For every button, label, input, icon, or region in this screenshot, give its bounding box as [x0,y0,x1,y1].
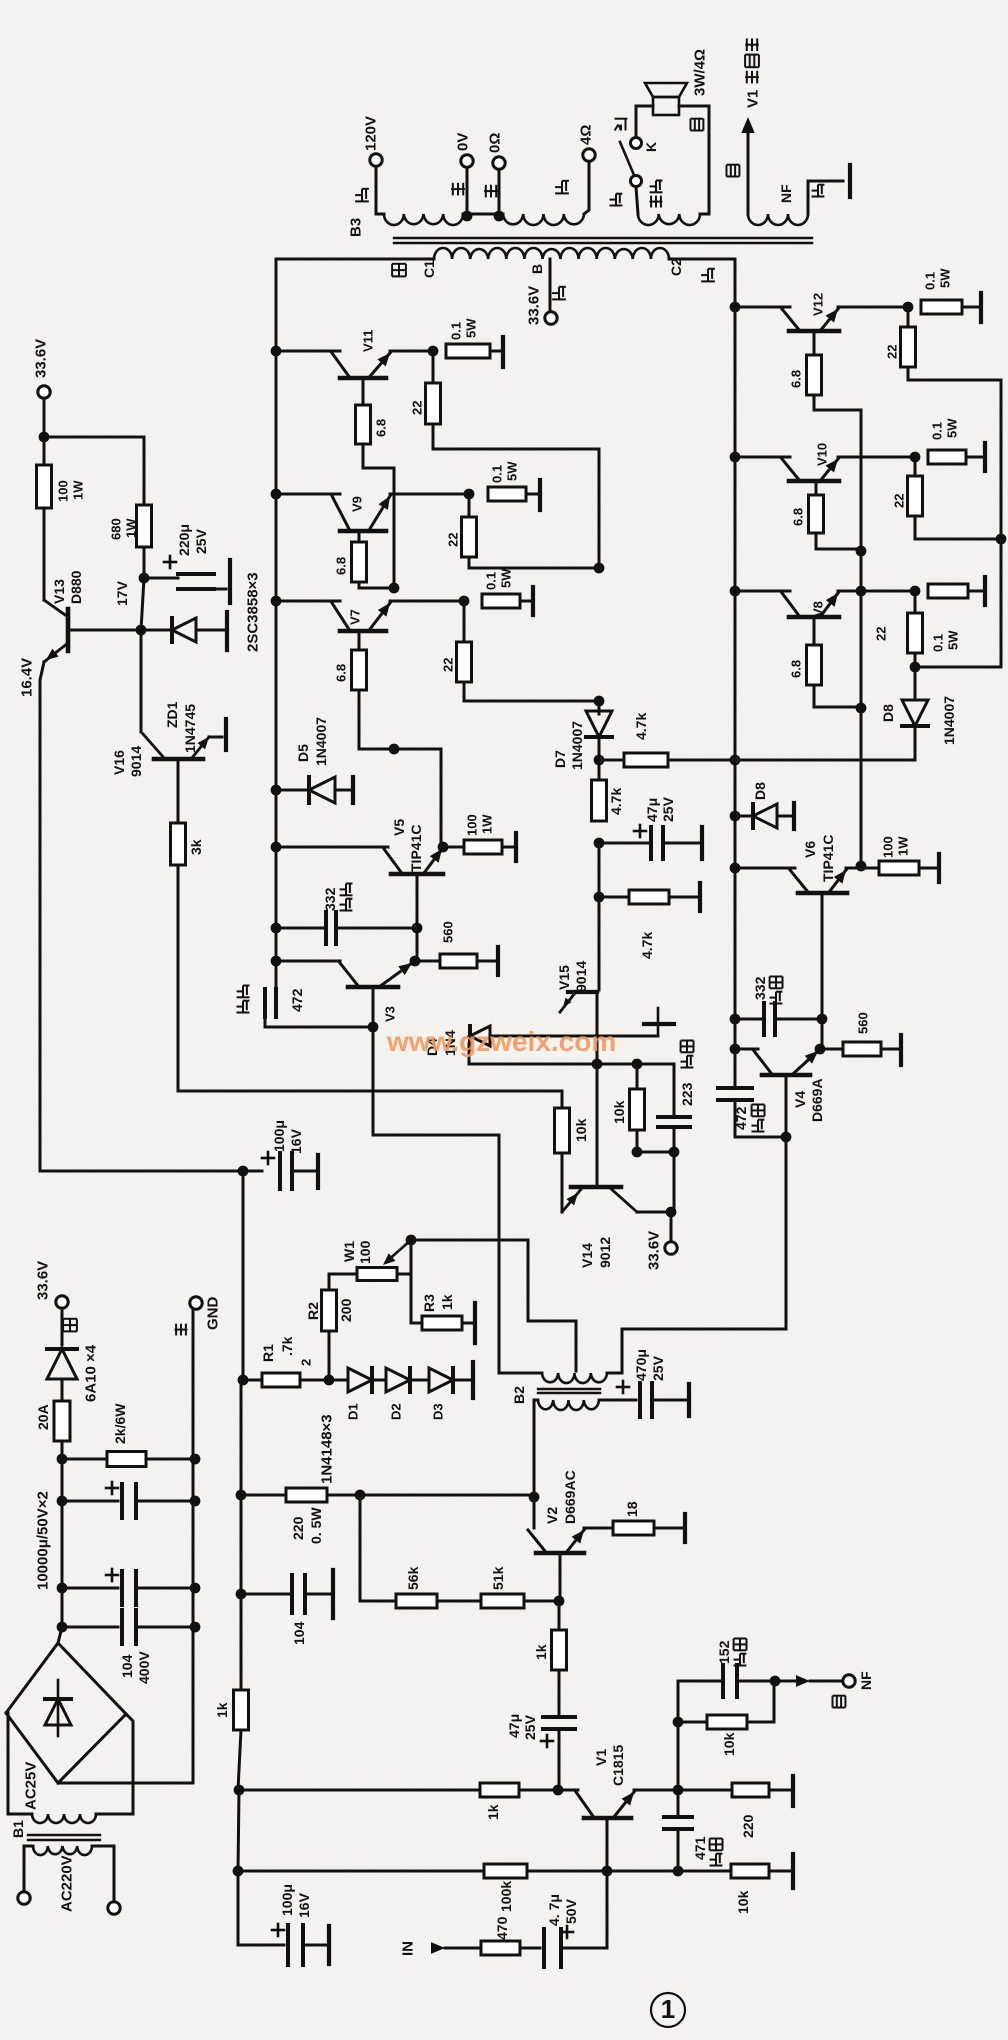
svg-text:100μ: 100μ [271,1120,287,1152]
svg-text:1k: 1k [533,1644,549,1660]
svg-text:100k: 100k [498,1881,514,1912]
wire V9 22 down [469,557,599,568]
terminal 33.6V (top left) [38,386,50,398]
wire 472 to V3 base [265,1017,373,1027]
svg-text:10k: 10k [573,1118,589,1142]
svg-text:6.8: 6.8 [374,419,389,437]
resistor 3k (V16 base) [177,759,180,823]
svg-text:100: 100 [881,836,896,858]
ground [791,1854,795,1888]
svg-text:B3: B3 [347,218,364,237]
ground [979,293,983,322]
svg-text:V16: V16 [111,750,127,775]
transistor V10 2SC3858 [730,452,741,463]
svg-text:1k: 1k [214,1702,230,1718]
node V4 emitter [815,1044,826,1055]
svg-text:16.4V: 16.4V [18,658,35,697]
label 瓷片 [770,992,783,1004]
wire V11 22 to D7 node [433,424,599,570]
label 绿 [833,1696,846,1708]
capacitor 47u 25V [599,842,650,845]
node V5 emitter [438,842,449,853]
wire from 22s to D7 [598,701,601,714]
resistor 220 0.5W [236,1490,247,1501]
label 绿 [691,119,704,131]
resistor 0.1 5W (V12 emitter) [921,300,962,314]
svg-text:D3: D3 [431,1403,446,1420]
label 绿 [727,165,740,177]
transistor V2 D669AC [533,1497,536,1528]
wire V9 base resistor [359,582,394,588]
wire B2 sec left to V2 collector [534,1400,538,1497]
svg-text:GND: GND [204,1297,221,1331]
wire V8 emitter [838,590,915,593]
svg-text:0. 5W: 0. 5W [308,1507,324,1544]
resistor 22 (V12) [907,307,910,327]
zener ZD1 1N4745 [141,629,171,632]
resistor 1k (V1 collector) [234,1785,245,1796]
svg-text:V14: V14 [579,1243,595,1268]
capacitor 47u 25V (bootstrap) [558,1670,561,1715]
wire 0V lead [466,168,469,214]
diode D4 1N4148 [468,1044,471,1064]
svg-text:332: 332 [322,887,338,911]
wire AC220 right [92,1846,114,1901]
svg-text:V1: V1 [744,90,761,108]
svg-text:47μ: 47μ [506,1714,522,1738]
transistor V14 9012 [571,1185,621,1190]
label 红 [355,189,369,202]
label 瓷片 [681,1056,694,1068]
switch blade [620,142,634,175]
label 蓝 [812,185,825,197]
wire V2 base [559,1553,562,1601]
svg-text:560: 560 [856,1012,871,1034]
svg-text:R1: R1 [260,1344,276,1362]
ground [473,1303,477,1343]
wire V4 base to B2 primary right [781,1132,792,1143]
resistor 6.8 (V11 base) [362,378,365,405]
wire B1 sec left to bridge [6,1713,32,1814]
wire V5 base down [416,875,419,928]
svg-text:0.1: 0.1 [931,634,946,652]
wire bridge minus to GND rail [58,1782,193,1785]
svg-text:22: 22 [885,345,900,359]
ground [700,827,704,859]
diode 6A10 x4 [47,1349,77,1379]
diode D1 1N4148 [329,1379,346,1382]
ground [687,1384,691,1416]
resistor 22 (V11) [432,351,435,383]
wire speaker to switch [636,106,653,137]
resistor 680 1W [137,505,152,547]
transistor V9 2SC3858 [271,489,282,500]
wire NF winding to V1 emitter arrow [747,131,750,214]
svg-text:22: 22 [441,658,456,672]
resistor 560 (V3 emitter) [415,960,440,963]
svg-text:10k: 10k [735,1890,751,1914]
svg-text:IN: IN [399,1941,416,1956]
resistor 220 (V1 emitter) [678,1789,732,1792]
wire 0ohm lead [498,170,501,214]
svg-text:33.6V: 33.6V [32,339,49,378]
node A [592,1059,603,1070]
bridge rectifier [58,1627,62,1643]
node B3 tap 0V [462,211,473,222]
wire B2 primary right up [621,1329,624,1373]
transistor V3 D669A [271,956,282,967]
svg-text:V15: V15 [556,965,572,990]
transformer B2 secondary [538,1400,599,1410]
wire V8 22 to D8 node [914,653,917,666]
svg-text:4Ω: 4Ω [577,125,594,145]
wire switch to monitor winding [636,187,638,214]
wire V8 base resistor [814,685,861,707]
transformer B3 monitor winding [638,214,700,225]
wire [598,843,601,897]
wire V12 base resistor to drive line [814,395,861,551]
transistor V11 2SC3858 [271,346,282,357]
resistor 22 (V7) [463,601,466,642]
wire to V14 collector [673,1152,676,1212]
wire C1 lead to left rail [276,258,434,261]
svg-text:V11: V11 [361,330,376,352]
svg-text:1k: 1k [485,1804,501,1820]
svg-text:.7k: .7k [279,1336,295,1356]
svg-text:22: 22 [892,494,907,508]
capacitor 10000u/50V x2 (first) [61,1459,64,1500]
resistor 100 1W (V13 collector) [43,437,46,465]
label 黑 [484,185,498,198]
svg-text:200: 200 [338,1298,354,1322]
label 黑 [175,1324,188,1336]
wire left rail bottom [238,1790,239,1871]
terminal 120V [370,154,382,166]
svg-text:5W: 5W [499,568,514,588]
svg-text:D8: D8 [880,704,896,722]
svg-text:C2: C2 [668,258,684,276]
svg-text:6.8: 6.8 [789,660,804,678]
terminal 33.6V (V14) [670,1212,673,1241]
potentiometer W1 100 [329,1274,357,1290]
wire drive line to V5 emitter [394,749,441,845]
svg-text:NF: NF [778,184,794,203]
ground [224,719,228,750]
capacitor 471 ceramic [677,1790,680,1815]
terminator bar [792,803,796,829]
node B3 tap 0ohm [494,211,505,222]
svg-text:1N4007: 1N4007 [941,696,957,745]
wire V11 emitter [390,350,433,353]
transistor V1 C1815 [558,1789,578,1792]
wire V10 emitter [838,456,915,459]
wire 120V lead [376,167,384,214]
figure number 1 [651,1993,685,2027]
resistor 4.7k (horizontal top) [599,759,624,762]
svg-text:6.8: 6.8 [334,557,349,575]
svg-text:D5: D5 [295,744,311,762]
wire V3 base [372,987,375,1027]
resistor R2 200 [328,1331,331,1380]
ground [657,1008,660,1036]
ground [316,1155,320,1188]
ground [983,443,987,471]
svg-text:NF: NF [858,1671,874,1690]
svg-text:9014: 9014 [573,961,589,992]
svg-text:1N4007: 1N4007 [313,717,329,766]
label 瓷片 [752,1120,765,1132]
resistor 10k (NF) [678,1721,707,1724]
svg-text:V7: V7 [348,609,363,625]
svg-text:1N4148×3: 1N4148×3 [318,1414,335,1484]
resistor 18 (V2 emitter) [584,1527,613,1530]
svg-text:V8: V8 [811,601,826,617]
wire left collector rail [275,259,278,990]
resistor 56k [360,1495,396,1601]
svg-text:3W/4Ω: 3W/4Ω [691,49,708,96]
fuse 20A [54,1401,70,1441]
svg-text:D2: D2 [389,1403,404,1420]
svg-text:D8: D8 [752,782,768,800]
svg-text:3k: 3k [188,839,204,855]
svg-text:25V: 25V [660,796,676,822]
svg-text:16V: 16V [296,1892,312,1918]
terminal B 33.6V [545,312,557,324]
svg-text:472: 472 [289,988,305,1012]
svg-text:2k/6W: 2k/6W [112,1403,128,1444]
svg-text:V9: V9 [350,496,365,512]
wire V6 collector [735,867,795,870]
resistor 1k (rail inline) [234,1690,249,1730]
wire B1 sec right to bridge [96,1714,133,1814]
wire V7 base resistor [359,690,394,749]
wire V10 collector [735,456,790,459]
svg-text:33.6V: 33.6V [525,286,542,325]
svg-text:1N4007: 1N4007 [569,721,585,770]
wire V9 emitter [390,493,469,496]
capacitor 100u 16V (bottom) [238,1871,284,1945]
wire left rail (16.4V regulated) [240,1380,243,1690]
resistor 10k (V14 upper) [636,1064,639,1089]
svg-text:0.1: 0.1 [449,322,464,340]
svg-text:104: 104 [119,1654,135,1678]
svg-text:V2: V2 [544,1507,560,1524]
svg-text:B1: B1 [10,1820,26,1838]
svg-text:ZD1: ZD1 [164,701,180,728]
wire V1 base line [233,1866,244,1877]
svg-text:1W: 1W [480,814,495,834]
svg-text:B2: B2 [511,1386,527,1404]
svg-text:V13: V13 [51,579,67,604]
svg-text:R3: R3 [421,1294,437,1312]
label 橙 [63,1319,77,1332]
ground [983,577,987,605]
node D [666,1207,677,1218]
resistor 10k (V14 emitter) [561,1091,564,1108]
W1 wiper arrow [386,1240,411,1262]
transformer B1 secondary AC25V [32,1814,96,1823]
terminal NF [843,1675,855,1687]
terminal 33.6V orange (supply) [56,1296,68,1308]
terminal 0V [461,155,473,167]
resistor 560 (V4) [820,1048,843,1051]
svg-text:22: 22 [410,401,425,415]
wire D8 cathode [914,728,917,760]
svg-text:AC220V: AC220V [58,1855,75,1912]
svg-text:100μ: 100μ [279,1884,295,1916]
svg-text:470: 470 [494,1916,510,1940]
svg-text:0.1: 0.1 [923,272,938,290]
wire 16.4V rail down [242,1171,245,1380]
transformer B3 NF winding [748,214,808,225]
svg-text:0V: 0V [454,133,471,151]
terminal AC line 1 [18,1892,30,1904]
transistor V13 D880 [43,508,46,600]
label 红 [552,287,566,300]
resistor 6.8 (V10 base) [815,481,818,495]
svg-text:220μ: 220μ [176,524,192,556]
label 涤纶 [237,1001,250,1013]
svg-text:V6: V6 [802,841,818,858]
wire V1 emitter [634,1789,675,1792]
label 瓷片 [710,1854,723,1866]
svg-text:W1: W1 [341,1241,357,1262]
svg-text:D7: D7 [552,750,568,768]
terminal GND [190,1297,202,1309]
wire V12 22 down right [908,367,1001,539]
wire GND rail [192,1309,195,1783]
resistor 6.8 (V9 base) [358,531,361,542]
wire V5 collector [276,846,388,849]
transformer B3 primary winding C1-B-C2 [434,248,669,259]
label 监听 [650,196,663,208]
wire V13 base [68,629,141,632]
node W [406,1235,417,1246]
ground [848,165,852,197]
svg-text:47μ: 47μ [644,798,660,822]
ground [538,480,542,510]
wire V9 collector [276,493,340,496]
wire V7 emitter [390,600,464,603]
svg-text:9014: 9014 [128,746,144,777]
wire V12 collector [735,306,790,309]
wire V6 base down [821,893,824,1019]
svg-text:K: K [643,142,659,152]
svg-text:25V: 25V [650,1355,666,1381]
svg-text:100: 100 [357,1240,373,1264]
resistor 2k/6W [62,1458,107,1461]
wire NF out [775,1680,795,1683]
wire C2 lead to right rail [669,259,735,306]
wire V11 collector [276,350,340,353]
svg-text:152: 152 [716,1640,732,1664]
transistor V5 TIP41C [271,842,282,853]
resistor 100 1W (V5) [443,846,464,849]
switch K (monitor) [631,138,642,149]
capacitor 104 400V [61,1588,64,1626]
svg-text:223: 223 [679,1082,695,1106]
label 发射极 [745,71,759,84]
wire to B2 primary left [373,1135,499,1373]
svg-text:TIP41C: TIP41C [820,835,836,882]
transformer B2 primary [542,1373,607,1383]
svg-text:D669AC: D669AC [562,1470,578,1524]
svg-text:V12: V12 [811,293,826,316]
wire V12 emitter [838,306,908,309]
ground [683,1514,687,1542]
svg-text:6.8: 6.8 [789,370,804,388]
svg-text:56k: 56k [405,1566,421,1590]
svg-text:2SC3858×3: 2SC3858×3 [244,572,261,652]
capacitor 223 ceramic [673,1064,676,1115]
svg-text:1W: 1W [896,836,911,856]
svg-text:2: 2 [299,1359,314,1366]
wire node A line [469,1063,674,1066]
svg-text:5W: 5W [938,268,953,288]
svg-text:400V: 400V [136,1651,152,1684]
transformer B2 core [538,1388,600,1390]
ground [899,1035,903,1065]
svg-text:472: 472 [733,1106,749,1130]
resistor 4.7k (vertical) [598,760,601,780]
resistor 0.1 5W (V8 emitter) [928,584,968,598]
resistor 10k (V1 emitter bottom) [678,1870,731,1873]
wire NF winding right to ground [808,181,843,214]
diode D6 (marked D8) [730,811,741,822]
svg-text:D669A: D669A [809,1078,825,1122]
svg-text:120V: 120V [362,116,379,151]
resistor 6.8 (V8 base) [813,618,816,645]
resistor 6.8 (V7 base) [358,632,361,650]
svg-text:20A: 20A [35,1404,51,1430]
svg-text:51k: 51k [490,1566,506,1590]
capacitor 152 ceramic [678,1681,722,1722]
terminator bar [351,777,355,803]
svg-text:10000μ/50V×2: 10000μ/50V×2 [34,1491,51,1590]
svg-text:5W: 5W [505,461,520,481]
wire right collector rail [734,259,737,1051]
svg-text:V10: V10 [815,443,830,466]
bridge internal diode [57,1680,60,1736]
svg-text:33.6V: 33.6V [34,1261,51,1300]
svg-text:1: 1 [661,1994,675,2024]
resistor 22 (V8) [914,591,917,613]
svg-text:6A10 ×4: 6A10 ×4 [82,1344,99,1402]
capacitor 100u 16V (16.4V rail) [238,1166,249,1177]
svg-text:25V: 25V [193,528,209,554]
svg-text:100: 100 [56,480,71,502]
ground [937,854,941,882]
svg-text:22: 22 [446,533,461,547]
diode D2 1N4148 [374,1379,384,1382]
capacitor 104 (second) [236,1589,247,1600]
ground [531,587,535,615]
ground [514,833,518,861]
capacitor 4.7u 50V [520,1947,540,1950]
ground [327,1926,331,1964]
wire V10 22 down [915,516,1001,539]
svg-text:1N4745: 1N4745 [182,704,198,753]
svg-text:50V: 50V [563,1898,579,1924]
svg-text:220: 220 [290,1516,306,1540]
node B [632,1059,643,1070]
resistor 0.1 5W (V10 emitter) [928,450,966,464]
wire V15 to node A [596,992,599,1063]
wire V13 emitter 16.4V down [40,662,243,1171]
wire V11 base resistor to drive line [363,444,394,588]
wire V14 base to node A [596,1064,599,1187]
svg-text:25V: 25V [522,1714,538,1740]
